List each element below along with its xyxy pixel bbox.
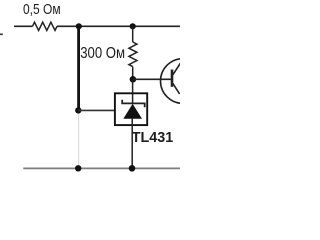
transistor Q1 base bar bbox=[171, 70, 174, 87]
node: junction bottom left bbox=[75, 165, 81, 171]
diode U1 anode triangle bbox=[123, 104, 142, 119]
wire: top rail left lead bbox=[14, 25, 33, 27]
svg-text:TL431: TL431 bbox=[132, 129, 174, 146]
transistor Q1 emitter stroke bbox=[173, 83, 180, 94]
node: junction at reference tap bbox=[75, 107, 81, 113]
svg-text:300 Ом: 300 Ом bbox=[80, 45, 125, 62]
wire: faint vertical link down to bottom rail bbox=[78, 114, 80, 165]
wire: reference wire to TL431 box bbox=[78, 109, 115, 111]
diode U1 cathode bar with hooks bbox=[122, 100, 145, 107]
transistor Q1 circle bbox=[161, 59, 206, 104]
transistor Q1 collector stroke bbox=[173, 62, 182, 75]
node: junction C base/cathode bbox=[130, 76, 137, 83]
wire: TL431 cathode lead bbox=[132, 79, 134, 103]
wire: R2 top lead bbox=[132, 26, 134, 42]
resistor R1 0,5 Ом zigzag bbox=[33, 22, 58, 30]
op-amp U1 TL431 box bbox=[115, 93, 147, 125]
resistor R2 300 Ом zigzag bbox=[129, 42, 137, 67]
wire: thick vertical shunt from node A bbox=[77, 26, 80, 110]
wire: cut-off stub at left edge bbox=[0, 33, 3, 35]
wire: base wire to transistor bbox=[133, 78, 172, 80]
wire: R2 bottom lead bbox=[132, 67, 134, 80]
wire: top rail right of R1 bbox=[57, 25, 180, 27]
node: junction A top of shunt bbox=[76, 23, 82, 29]
node: junction B top of R2 bbox=[130, 23, 136, 29]
wire: bottom rail bbox=[23, 167, 180, 169]
svg-text:0,5 Ом: 0,5 Ом bbox=[23, 2, 61, 18]
node: junction D anode to bottom rail bbox=[129, 165, 136, 172]
wire: TL431 anode lead bbox=[131, 119, 133, 169]
